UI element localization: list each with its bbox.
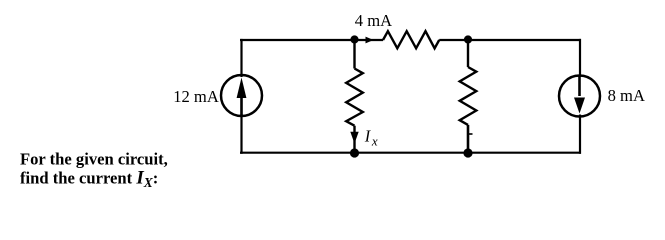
current source I2 arrow (down) (574, 77, 585, 114)
node A junction dot (top left) (350, 35, 358, 43)
current arrow 4 mA on top wire (366, 37, 374, 44)
current source I2 8 mA circle (559, 76, 600, 117)
current source I1 arrow (up) (237, 78, 247, 116)
node C junction dot (top right) (464, 35, 472, 43)
wire middle-right branch upper (467, 40, 469, 68)
current arrow Ix (down) (350, 132, 358, 144)
resistor R1 (top horizontal) (383, 31, 439, 48)
svg-text:find the current IX:: find the current IX: (20, 168, 158, 191)
svg-text:Ix: Ix (364, 126, 378, 148)
wire middle-left branch lower with Ix arrow (353, 126, 355, 151)
wire right vertical lower (579, 115, 581, 154)
wire middle-right branch lower (467, 125, 470, 151)
svg-text:For the given circuit,: For the given circuit, (20, 149, 168, 168)
node E junction dot (bottom right) (463, 148, 472, 157)
resistor R3 (right vertical) (460, 67, 477, 125)
svg-text:12 mA: 12 mA (173, 87, 219, 106)
wire middle-left branch upper (353, 40, 355, 69)
wire left vertical lower (240, 114, 242, 154)
svg-text:8 mA: 8 mA (608, 86, 645, 105)
wire left vertical upper (240, 39, 242, 77)
wire right vertical upper (579, 39, 581, 77)
tick mark on right branch wire (469, 133, 473, 135)
wire top-right: R1 to node C (439, 39, 581, 41)
node D junction dot (bottom left) (350, 148, 359, 157)
svg-text:4 mA: 4 mA (355, 11, 392, 30)
wire bottom (240, 152, 581, 154)
current source I1 12 mA circle (221, 75, 262, 116)
wire top-left: node B to node A (240, 39, 383, 41)
resistor R2 (left vertical) (346, 69, 363, 126)
